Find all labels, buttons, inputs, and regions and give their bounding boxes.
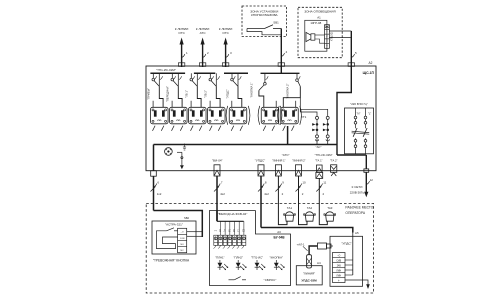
svg-text:7: 7 — [221, 181, 223, 185]
main cabinet box A2 SCH-1P — [146, 61, 376, 171]
svg-text:"ТП1-ИС-02М": "ТП1-ИС-02М" — [156, 68, 176, 72]
breaker pole L — [363, 108, 371, 154]
plug-in marks around jack X5 — [226, 106, 250, 125]
svg-text:К СЕТИ: К СЕТИ — [352, 185, 363, 189]
dashed zone box - annunciation zone — [298, 7, 342, 57]
svg-text:ТА2: ТА2 — [307, 206, 313, 210]
svg-text:1: 1 — [186, 51, 188, 55]
svg-text:2: 2 — [282, 192, 284, 196]
svg-text:"220 В 50 Гц": "220 В 50 Гц" — [350, 102, 368, 106]
svg-text:220В 50Гц: 220В 50Гц — [350, 191, 365, 195]
svg-text:"СБРОС": "СБРОС" — [264, 278, 277, 282]
svg-text:А1: А1 — [317, 16, 321, 20]
svg-text:ЛИН: ЛИН — [336, 275, 341, 277]
svg-text:ЛИН: ЛИН — [336, 270, 341, 272]
svg-text:SB1: SB1 — [273, 21, 279, 25]
svg-text:ОТС: ОТС — [222, 31, 229, 35]
svg-text:"ТА 1": "ТА 1" — [315, 158, 323, 162]
wire 7 cable 4x2 — [214, 176, 225, 221]
svg-text:2: 2 — [207, 51, 209, 55]
svg-text:"ПЛН1": "ПЛН1" — [215, 256, 224, 260]
breaker pole N — [353, 108, 360, 154]
arrester bottom stubs — [317, 138, 328, 145]
SB2 terminal block — [178, 228, 187, 252]
svg-text:COM: COM — [180, 238, 185, 240]
svg-text:ТА3: ТА3 — [327, 206, 333, 210]
mains connector pin — [364, 169, 369, 172]
internal distribution bus wire — [154, 126, 338, 171]
mains input box — [345, 108, 374, 154]
ground wire from + terminal with arrow — [345, 280, 370, 289]
fuse element of A4 — [307, 255, 312, 268]
LED indicators row — [215, 256, 284, 271]
svg-text:ТА1: ТА1 — [287, 206, 293, 210]
svg-text:4х2: 4х2 — [220, 192, 225, 196]
telephone ТА2 — [304, 206, 316, 221]
wire 8 cable 4x2 — [258, 176, 269, 228]
device A4 UPDS-03M box — [296, 261, 322, 285]
functional earth E symbol — [177, 144, 186, 170]
wire 7 entering A3 with fan-out bar — [217, 211, 244, 236]
switch contact S3 ЛБ 1 — [185, 73, 201, 107]
svg-text:"ЛБ 2": "ЛБ 2" — [204, 90, 208, 98]
svg-text:1х2: 1х2 — [157, 192, 162, 196]
svg-text:1: 1 — [326, 30, 328, 33]
svg-text:6: 6 — [157, 181, 159, 185]
svg-text:"ТП1-ИС": "ТП1-ИС" — [251, 256, 263, 260]
svg-text:УПДС-03М: УПДС-03М — [301, 278, 317, 282]
mains wire path inside cabinet — [337, 66, 351, 145]
svg-text:12: 12 — [370, 178, 374, 182]
switch contact S4 ЛБ 2 — [204, 73, 220, 107]
svg-text:"L": "L" — [368, 112, 371, 116]
switch contact S7 KNOPKA 2 — [283, 73, 300, 107]
svg-text:+: + — [338, 279, 340, 283]
reset switch SBROS — [229, 277, 277, 283]
console A5 UPDS box — [330, 231, 363, 286]
wire 4 from SB1 to cabinet — [280, 29, 282, 68]
svg-text:3: 3 — [326, 40, 328, 43]
svg-text:"ТП1-ИС-02М": "ТП1-ИС-02М" — [315, 153, 333, 157]
connector pin wire 6 — [151, 171, 157, 177]
ground terminal symbol — [165, 148, 173, 156]
reserved connector TA 2 mark — [331, 165, 337, 176]
svg-text:"ПЛН2": "ПЛН2" — [233, 256, 242, 260]
SB2 internal button mechanism — [157, 228, 178, 249]
wire to line ОТС (conductor 3) with up arrow — [219, 27, 233, 67]
wire 9 cable 2 — [275, 176, 287, 225]
svg-text:ОПЕРАТОРА: ОПЕРАТОРА — [345, 211, 365, 215]
A3 terminal strip with fuse holders — [213, 228, 245, 248]
wire 6 routing to alarm button — [154, 211, 203, 238]
alarm button SB2 ASTRA-321 — [152, 216, 196, 254]
switch contact S6 KNOPKA 1 — [250, 73, 277, 107]
jack socket X6 — [261, 107, 279, 131]
svg-text:NO: NO — [180, 244, 184, 246]
line bus segment 3 — [224, 72, 248, 74]
svg-text:"ЛИНИЯ 1": "ЛИНИЯ 1" — [272, 158, 286, 162]
wire A4 to connector — [297, 242, 318, 254]
feeder bus from wire 4 — [261, 66, 300, 73]
switch contact S5 УПДС — [225, 73, 241, 107]
svg-text:2: 2 — [214, 229, 217, 231]
detachable connector pair — [318, 243, 334, 249]
line bus segment 2 — [194, 72, 215, 74]
wire 5 speaker line to cabinet — [351, 31, 357, 67]
wire to line АТС (conductor 2) with up arrow — [196, 27, 210, 67]
svg-text:"АСТРА-321": "АСТРА-321" — [165, 223, 183, 227]
speaker symbol — [306, 32, 315, 41]
svg-text:ЩС-1П: ЩС-1П — [363, 71, 375, 75]
switch contact S1 ПРИЕМ — [147, 73, 163, 107]
svg-text:"ВЫХОД НА ФСВ-04": "ВЫХОД НА ФСВ-04" — [218, 212, 248, 216]
svg-text:А5: А5 — [355, 231, 359, 235]
jack socket X5 — [229, 107, 247, 131]
switch contact S2 ПЕРЕДАЧА — [166, 73, 182, 107]
breaker linkage bar — [352, 131, 370, 134]
jack socket X4 — [208, 107, 226, 131]
svg-text:"УПДС": "УПДС" — [255, 158, 265, 162]
pin hook marks under buses — [154, 76, 300, 79]
svg-text:5: 5 — [355, 51, 357, 55]
svg-text:SB2: SB2 — [184, 216, 190, 220]
A5 terminal block — [333, 253, 346, 283]
wire 8 routing to UPDS console — [261, 228, 353, 233]
svg-text:ЗОНА ОПОВЕЩЕНИЯ: ЗОНА ОПОВЕЩЕНИЯ — [304, 10, 335, 14]
wires strip to riser wire 5 — [329, 31, 351, 38]
svg-text:4: 4 — [326, 44, 328, 47]
svg-text:СИВ: СИВ — [336, 260, 341, 262]
plug-in marks around jack X7 — [278, 106, 302, 125]
svg-text:–O: –O — [337, 255, 340, 257]
svg-text:NC: NC — [181, 250, 185, 252]
svg-text:3: 3 — [230, 51, 232, 55]
svg-text:РАБОЧЕЕ МЕСТО: РАБОЧЕЕ МЕСТО — [345, 206, 373, 210]
svg-text:"ТРЕВОЖНАЯ" КНОПКА: "ТРЕВОЖНАЯ" КНОПКА — [153, 258, 190, 262]
svg-text:АТС: АТС — [200, 31, 207, 35]
svg-text:А4: А4 — [317, 261, 321, 265]
bottom edge plug connectors — [214, 165, 302, 176]
plug-in marks around jack X6 — [258, 106, 282, 125]
wire 11 cable 2 — [316, 178, 327, 224]
surge arrester at x=317.0 — [312, 116, 318, 141]
svg-text:БУ-04В: БУ-04В — [273, 235, 285, 239]
wire to line ОТС (conductor 1) with up arrow — [175, 27, 189, 67]
connector ATS labels — [272, 153, 306, 162]
jack socket X7 — [281, 107, 299, 131]
telephone ТА3 — [324, 206, 336, 221]
svg-text:8: 8 — [265, 181, 267, 185]
jack socket X2 — [170, 107, 188, 131]
svg-text:"ТА 2": "ТА 2" — [330, 158, 338, 162]
svg-text:24В: 24В — [337, 265, 342, 267]
svg-text:10ГР-08: 10ГР-08 — [310, 21, 321, 25]
svg-text:"АС": "АС" — [316, 145, 322, 149]
wire 12 to mains network — [350, 172, 374, 197]
svg-text:"ВИ-04": "ВИ-04" — [212, 158, 223, 162]
line bus segment 1 — [150, 72, 185, 74]
svg-text:"УПДС": "УПДС" — [341, 242, 351, 246]
dashed zone box - call button installation zone — [242, 6, 287, 37]
svg-text:–O: –O — [181, 232, 184, 234]
svg-text:+АЛ-1: +АЛ-1 — [297, 242, 305, 246]
loudspeaker unit A1 10GR-08 — [305, 16, 327, 52]
svg-text:4: 4 — [285, 50, 287, 54]
dashed zone box - operator workplace — [146, 204, 374, 294]
wire 10 cable 2 — [296, 176, 308, 225]
connector TA labels — [315, 153, 338, 162]
wires speaker to strip — [315, 35, 325, 43]
svg-text:10: 10 — [302, 181, 306, 185]
svg-text:"ПРИЕМ": "ПРИЕМ" — [147, 88, 151, 100]
svg-text:11: 11 — [323, 181, 326, 185]
connector strip XT1(X2) pins 1-4 — [325, 25, 334, 49]
control unit A3 BU-04V outline — [210, 211, 291, 286]
svg-text:4х2: 4х2 — [264, 192, 269, 196]
svg-text:"КНОПКА": "КНОПКА" — [270, 256, 283, 260]
svg-text:2: 2 — [323, 192, 325, 196]
svg-text:A2: A2 — [369, 61, 373, 65]
svg-text:"АТС": "АТС" — [282, 153, 290, 157]
svg-text:ХТ1: ХТ1 — [301, 115, 307, 119]
A5 terminal stub wires — [345, 233, 353, 276]
double connector TA 1 — [316, 165, 323, 178]
svg-text:9: 9 — [282, 181, 284, 185]
jack socket X1 — [151, 107, 169, 131]
svg-text:"КНОПКА 2": "КНОПКА 2" — [286, 83, 290, 98]
svg-text:"ЛИНИЯ": "ЛИНИЯ" — [303, 272, 315, 276]
svg-text:А3: А3 — [277, 230, 281, 234]
cabinet input pins on top edge — [178, 63, 354, 67]
svg-text:КНОПКИ ВЫЗОВА: КНОПКИ ВЫЗОВА — [251, 13, 279, 17]
svg-text:2: 2 — [326, 35, 328, 38]
wires SB2 to riser — [187, 232, 203, 237]
svg-text:2: 2 — [302, 192, 304, 196]
svg-text:ХТ1(Х2): ХТ1(Х2) — [331, 32, 334, 41]
svg-text:ОТС: ОТС — [178, 31, 185, 35]
surge arrester at x=327.7 — [323, 116, 330, 141]
svg-text:"N": "N" — [357, 112, 361, 116]
svg-text:"УПДС": "УПДС" — [225, 89, 229, 98]
svg-text:"ЛИНИЯ 2": "ЛИНИЯ 2" — [292, 158, 306, 162]
arrester top links — [300, 98, 327, 117]
jack socket X3 — [189, 107, 207, 131]
svg-text:"ЛБ 1": "ЛБ 1" — [185, 90, 189, 98]
telephone ТА1 — [284, 206, 296, 221]
svg-text:"ПЕРЕДАЧА": "ПЕРЕДАЧА" — [166, 86, 170, 102]
wire 6 cable 1x2 — [151, 176, 162, 210]
push button SB1 — [247, 21, 281, 35]
svg-text:"КНОПКА 1": "КНОПКА 1" — [250, 82, 254, 97]
mains wire to bottom — [337, 145, 366, 169]
